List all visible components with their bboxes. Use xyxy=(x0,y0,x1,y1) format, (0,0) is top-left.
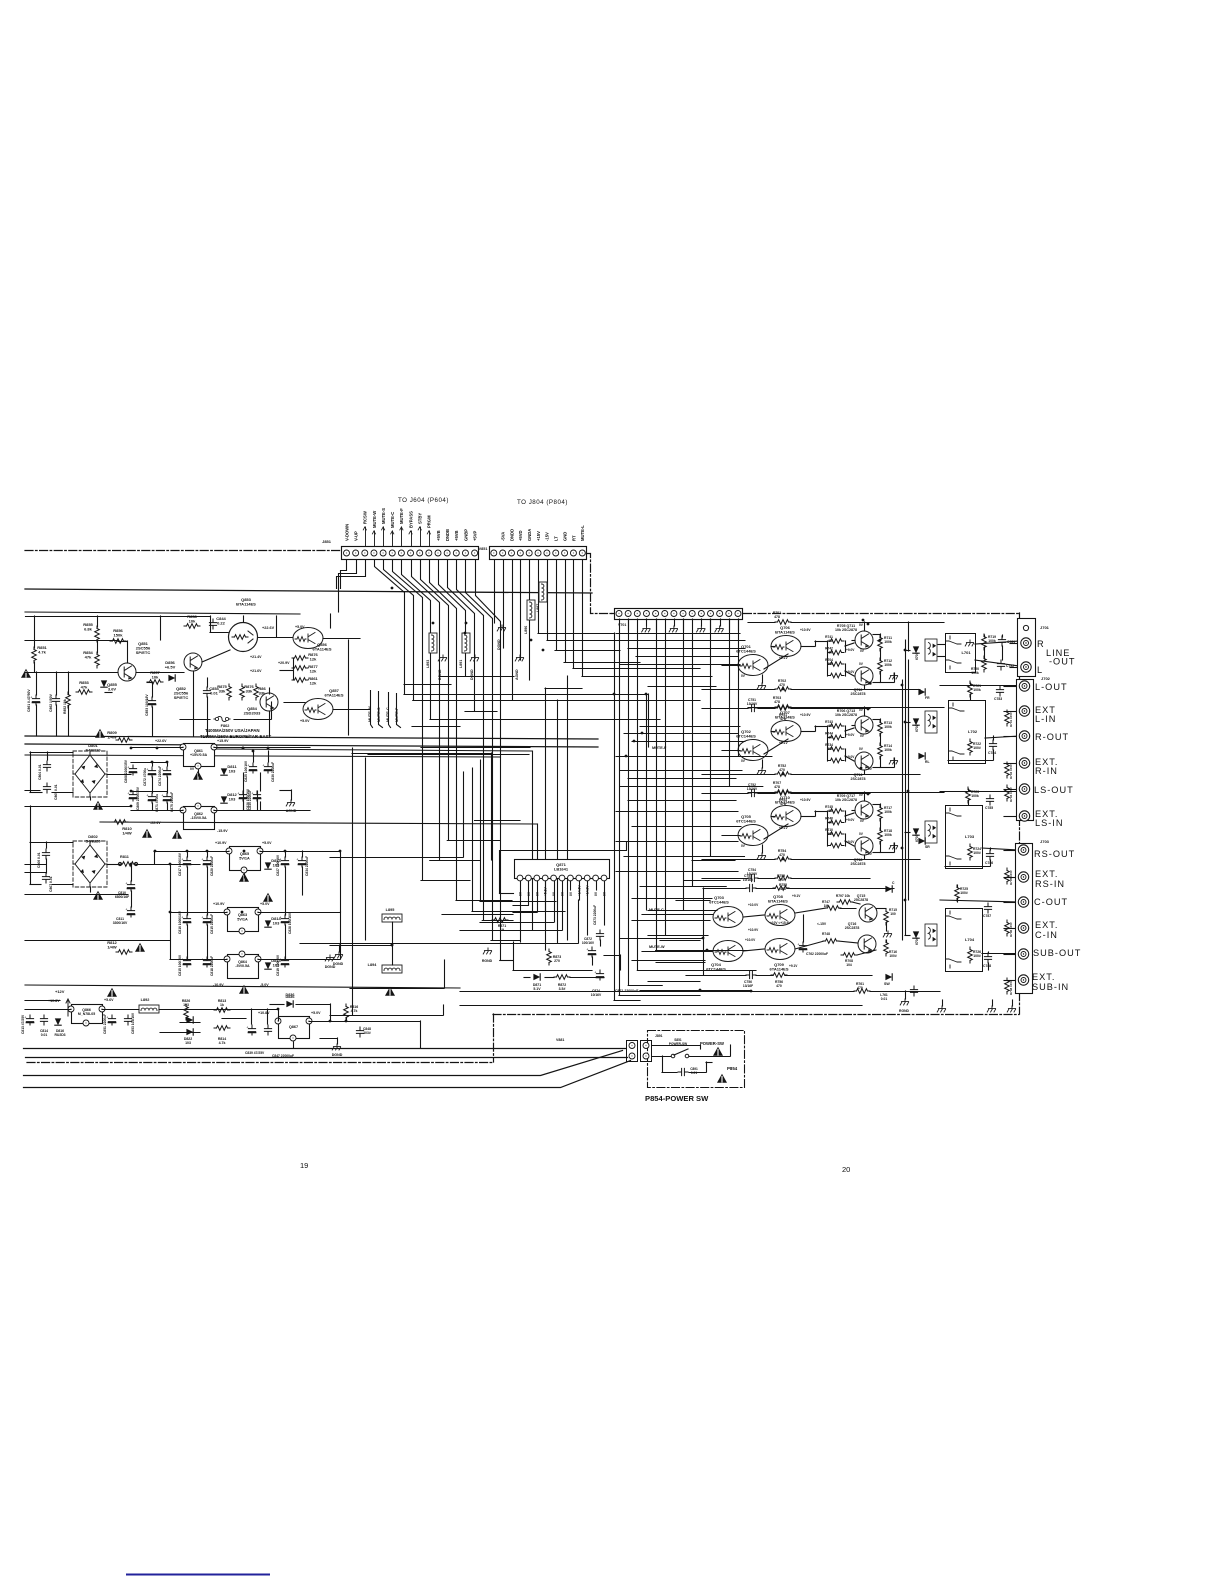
resistor R875 xyxy=(227,684,232,700)
svg-text:-5VA: -5VA xyxy=(500,532,505,541)
svg-text:103: 103 xyxy=(229,769,236,774)
wire V851 pin drops xyxy=(495,560,583,700)
svg-text:R732 100#: R732 100# xyxy=(1009,764,1013,779)
wire row Q702 xyxy=(722,707,909,774)
resistor R734 100k xyxy=(1005,785,1010,801)
svg-text:LT: LT xyxy=(554,536,559,541)
diode D815 xyxy=(265,962,271,969)
svg-text:MUTE-L: MUTE-L xyxy=(580,525,585,541)
diode D816 xyxy=(55,1018,61,1025)
capacitor C820 xyxy=(201,857,210,867)
svg-text:100#: 100# xyxy=(960,891,968,895)
capacitor C782 xyxy=(997,660,1004,670)
svg-text:+5VB: +5VB xyxy=(436,530,441,541)
capacitor C788 xyxy=(984,953,991,963)
svg-text:2SC2878: 2SC2878 xyxy=(851,692,866,696)
transistor Q701 digital xyxy=(738,655,768,676)
transistor Q705 digital xyxy=(738,825,768,846)
connector V851 pin labels xyxy=(500,525,585,541)
svg-text:2SC2878: 2SC2878 xyxy=(845,926,860,930)
jack J703-5 xyxy=(1018,949,1028,959)
ground Q705 xyxy=(757,853,765,859)
svg-text:13/16V: 13/16V xyxy=(747,702,758,706)
svg-text:STBY: STBY xyxy=(418,513,423,524)
svg-text:1M: 1M xyxy=(828,651,833,655)
transistor Q704 digital xyxy=(713,941,743,962)
capacitor C806 xyxy=(42,849,49,859)
svg-text:R: R xyxy=(1037,639,1045,649)
resistor R811 xyxy=(120,862,136,867)
resistor R722 xyxy=(968,739,973,755)
svg-text:10/16V: 10/16V xyxy=(591,993,602,997)
wire top rail R703 xyxy=(748,707,775,709)
diode 6701 input xyxy=(913,646,919,653)
svg-text:Q867: Q867 xyxy=(289,1025,298,1029)
svg-text:BTA114ES: BTA114ES xyxy=(775,715,795,720)
resistor R872 xyxy=(554,975,570,980)
svg-text:M_N78L05: M_N78L05 xyxy=(78,1012,95,1016)
warning triangle q863 xyxy=(263,893,273,902)
svg-text:4.7k: 4.7k xyxy=(351,1009,358,1013)
capacitor C862 xyxy=(52,695,59,705)
resistor R707 xyxy=(775,790,791,795)
ground DGND bottom xyxy=(332,1044,340,1050)
capacitor C816 xyxy=(181,915,190,925)
resistor R736 100k xyxy=(1005,920,1010,936)
resistor R711 100k xyxy=(878,635,883,651)
wire MUTE-W xyxy=(642,951,713,953)
svg-text:RL: RL xyxy=(925,760,930,764)
svg-text:J851: J851 xyxy=(322,539,332,544)
resistor R814 xyxy=(214,1026,230,1031)
resistor R797 xyxy=(837,900,853,905)
svg-text:2SD2033: 2SD2033 xyxy=(244,711,261,716)
svg-text:BTA114ES: BTA114ES xyxy=(775,630,795,635)
resistor R712 100k xyxy=(878,658,883,674)
resistor R753 xyxy=(775,791,791,796)
transistor Q854 xyxy=(260,693,278,711)
svg-text:-15V/0.5A: -15V/0.5A xyxy=(190,816,207,820)
capacitor C835 xyxy=(251,791,260,801)
svg-text:4.7k: 4.7k xyxy=(38,650,47,655)
svg-text:C836 2200uF: C836 2200uF xyxy=(271,762,275,782)
svg-text:RT: RT xyxy=(571,535,576,541)
boundary dash-dot amp right xyxy=(1019,613,1021,1014)
capacitor C813 xyxy=(24,1015,33,1025)
resistor R877 12k xyxy=(292,666,308,671)
wire cap rail C751 xyxy=(702,708,748,710)
resistor R716 xyxy=(884,940,889,956)
svg-text:100k: 100k xyxy=(971,671,979,675)
svg-text:L701: L701 xyxy=(961,650,971,655)
switch S851 xyxy=(652,1045,731,1058)
svg-text:R797 10k: R797 10k xyxy=(836,894,850,898)
wire relay4 xyxy=(905,885,1019,970)
ground mid V851 xyxy=(497,625,505,631)
svg-text:1/4W: 1/4W xyxy=(122,831,132,836)
svg-text:C818 2200uF: C818 2200uF xyxy=(210,956,214,976)
svg-text:103: 103 xyxy=(183,1003,189,1007)
capacitor C783 xyxy=(996,686,1003,696)
resistor R809 xyxy=(116,738,132,743)
capacitor C891 xyxy=(678,1068,688,1075)
diode D823 xyxy=(186,1017,193,1023)
svg-text:C873 2200uF: C873 2200uF xyxy=(593,905,597,925)
boundary dash-dot V851 to amp xyxy=(587,554,613,614)
diode D812 xyxy=(221,796,227,803)
warning triangle q861 xyxy=(193,771,203,780)
svg-text:C-IN: C-IN xyxy=(1035,930,1058,940)
svg-text:104: 104 xyxy=(846,963,852,967)
wire cap rail C752 xyxy=(702,793,748,795)
svg-text:DGND: DGND xyxy=(470,669,474,680)
diode D811 xyxy=(221,768,227,775)
svg-text:J701: J701 xyxy=(1040,625,1050,630)
boundary dash-dot amp bottom xyxy=(493,1014,1019,1016)
diode 6704 input xyxy=(913,931,919,938)
svg-text:EXT.: EXT. xyxy=(1032,972,1055,982)
wire reg15 rails xyxy=(25,748,310,811)
capacitor C828 xyxy=(279,915,288,925)
connector V851 xyxy=(490,547,587,560)
svg-text:+9.0V: +9.0V xyxy=(846,733,855,737)
wire V701 pin drops short xyxy=(629,619,739,630)
wire center block xyxy=(620,888,887,975)
inductor L893 xyxy=(429,633,437,653)
svg-text:DGND: DGND xyxy=(325,965,336,969)
svg-text:4.7k: 4.7k xyxy=(219,1041,226,1045)
jack J702-5 xyxy=(1019,784,1029,794)
svg-text:10k: 10k xyxy=(189,619,196,624)
svg-text:PRGM: PRGM xyxy=(427,515,432,528)
svg-text:R736 100#: R736 100# xyxy=(1009,922,1013,937)
svg-text:103: 103 xyxy=(273,921,280,926)
capacitor C848 xyxy=(356,1027,363,1037)
wire mid verticals to ic xyxy=(100,588,590,1016)
svg-text:100#: 100# xyxy=(973,954,981,958)
svg-text:C816 1000/16V: C816 1000/16V xyxy=(178,910,182,934)
resistor R738 100k xyxy=(1005,978,1010,994)
svg-text:D836: D836 xyxy=(285,995,294,999)
diode D814 xyxy=(265,920,271,927)
transistor Q710 digital xyxy=(771,806,801,827)
svg-text:C786: C786 xyxy=(985,861,993,865)
ground DGND mid xyxy=(438,655,446,661)
svg-text:SUB-OUT: SUB-OUT xyxy=(1033,948,1081,958)
wire row Q705 xyxy=(722,792,909,859)
svg-text:C825 100/16V: C825 100/16V xyxy=(244,760,248,782)
capacitor C872 xyxy=(146,767,155,777)
resistor R854 xyxy=(95,652,100,668)
connector J891 b xyxy=(641,1041,652,1062)
svg-text:MUTE-F: MUTE-F xyxy=(399,508,404,524)
transistor Q852 xyxy=(184,653,202,671)
resistor ladder R743 R744 R734 xyxy=(825,720,855,763)
wire bottom rail pair 1 xyxy=(24,1048,626,1050)
wire reg5 rails xyxy=(25,851,341,960)
svg-text:6TC144ES: 6TC144ES xyxy=(736,649,756,654)
warning triangle q865 xyxy=(239,873,249,882)
svg-text:C847 22000uF: C847 22000uF xyxy=(272,1054,294,1058)
svg-text:478: 478 xyxy=(774,785,780,789)
wire IC loop outer xyxy=(500,843,627,894)
resistor R855 xyxy=(95,626,100,642)
warning triangle q864 xyxy=(239,985,249,994)
wire bottom long 2 xyxy=(24,1061,631,1088)
inductor L896 xyxy=(527,600,535,620)
svg-text:13/16F: 13/16F xyxy=(743,984,753,988)
diode D856 xyxy=(168,675,175,681)
capacitor C819 xyxy=(279,957,288,967)
svg-text:1/4W: 1/4W xyxy=(107,945,117,950)
svg-text:+10.9V: +10.9V xyxy=(215,841,227,845)
capacitor C875 xyxy=(161,793,170,803)
svg-text:C839 47/25V: C839 47/25V xyxy=(245,1051,265,1055)
capacitor C781 xyxy=(998,636,1005,646)
diode D836 xyxy=(286,1001,293,1007)
svg-text:R811: R811 xyxy=(120,855,129,859)
ground Q701 xyxy=(757,683,765,689)
wire ic bottom xyxy=(513,940,621,978)
transistor Q707 digital xyxy=(771,721,801,742)
wire top rail R707 xyxy=(748,792,775,794)
svg-text:470: 470 xyxy=(779,853,785,857)
svg-text:C813 47/25V: C813 47/25V xyxy=(21,1014,25,1034)
wire ps block fills xyxy=(35,616,272,736)
capacitor C825 xyxy=(247,763,256,773)
svg-text:+5.0V: +5.0V xyxy=(295,625,305,629)
svg-text:1M: 1M xyxy=(828,724,833,728)
capacitor C762 xyxy=(797,942,806,952)
capacitor C754 xyxy=(748,874,758,881)
capacitor C8x2 xyxy=(264,1025,271,1035)
svg-text:103: 103 xyxy=(185,1041,191,1045)
wire rail mid pair A xyxy=(25,736,598,739)
ground L701 xyxy=(965,640,973,646)
svg-text:C875 2900uF: C875 2900uF xyxy=(170,792,174,812)
ground AGND mid xyxy=(515,655,523,661)
resistor ladder R741 R742 R704 xyxy=(825,635,855,678)
svg-text:5V/1A: 5V/1A xyxy=(239,856,250,860)
capacitor C787 xyxy=(984,903,991,913)
resistor ladder R745 R746 R710 xyxy=(825,805,855,848)
capacitor C752 xyxy=(748,789,758,796)
wire relay1 xyxy=(905,635,1019,666)
svg-text:Q863: Q863 xyxy=(238,913,247,917)
jack J702-3 xyxy=(1019,731,1029,741)
ground q715 xyxy=(883,931,891,937)
wire MUTE-C xyxy=(642,914,713,916)
svg-text:L703: L703 xyxy=(965,834,975,839)
wire bundle J851 verticals xyxy=(375,561,501,961)
svg-text:BTA114ES: BTA114ES xyxy=(775,800,795,805)
boundary dash-dot bottom xyxy=(27,1062,493,1064)
svg-text:6TC144ES: 6TC144ES xyxy=(736,734,756,739)
svg-text:12k: 12k xyxy=(310,669,317,674)
svg-text:C853 103/16V: C853 103/16V xyxy=(131,1012,135,1034)
jack J703-1 xyxy=(1018,845,1028,855)
svg-text:+5VB: +5VB xyxy=(454,530,459,541)
wire amp grounds bottom xyxy=(937,1000,1015,1012)
resistor R755 xyxy=(775,876,791,881)
wire V701 grounds xyxy=(642,619,724,632)
wire jack stubs xyxy=(1004,644,1017,981)
diode RL xyxy=(918,753,925,759)
transistor Q702 digital xyxy=(738,740,768,761)
capacitor C785 xyxy=(986,795,993,805)
svg-text:18k: 18k xyxy=(827,747,833,751)
svg-text:+5.6V: +5.6V xyxy=(104,998,114,1002)
regulator Q864 xyxy=(228,955,259,979)
svg-text:100k: 100k xyxy=(973,688,981,692)
transistor Q851 xyxy=(118,663,136,681)
capacitor C853b xyxy=(124,1015,131,1025)
relay L701 xyxy=(946,634,976,673)
regulator Q866 xyxy=(72,1005,103,1024)
ground RGND amp xyxy=(900,999,908,1005)
svg-text:C806 0.01: C806 0.01 xyxy=(37,852,41,868)
svg-text:C862 1/50V: C862 1/50V xyxy=(49,693,53,712)
svg-text:C785: C785 xyxy=(985,806,993,810)
svg-text:L891: L891 xyxy=(459,660,463,668)
svg-text:C809 2200/35V: C809 2200/35V xyxy=(136,786,140,810)
warning triangle q866 xyxy=(107,988,117,997)
jack J702-2 xyxy=(1019,706,1029,716)
wire +12V arrow xyxy=(66,999,70,1016)
capacitor C786 xyxy=(986,850,993,860)
svg-text:1/4W: 1/4W xyxy=(107,735,117,740)
svg-text:+5.0V: +5.0V xyxy=(262,841,272,845)
jack J703-4 xyxy=(1018,923,1028,933)
transistor Q717 xyxy=(855,801,873,819)
svg-text:6TC144ES: 6TC144ES xyxy=(736,819,756,824)
wire cap rail C754 xyxy=(702,878,748,880)
relay L702 xyxy=(949,701,986,764)
svg-text:33k: 33k xyxy=(246,689,253,694)
connector J701 pin top xyxy=(1023,625,1028,630)
junction dots xyxy=(130,587,910,1023)
svg-text:2SC2878: 2SC2878 xyxy=(851,777,866,781)
svg-text:V-UP: V-UP xyxy=(353,531,358,541)
capacitor C784 xyxy=(989,740,996,750)
svg-text:L893: L893 xyxy=(426,660,430,668)
svg-text:P854: P854 xyxy=(727,1066,738,1071)
svg-text:C815 100/16V: C815 100/16V xyxy=(178,954,182,976)
warning triangle r809 xyxy=(95,729,105,738)
svg-text:MUTE-C: MUTE-C xyxy=(390,512,395,528)
svg-text:19: 19 xyxy=(500,928,504,932)
svg-text:RGND: RGND xyxy=(899,1009,910,1013)
wire mute drops xyxy=(371,691,401,728)
resistor R718 100k xyxy=(878,828,883,844)
jack J703-6 xyxy=(1018,975,1028,985)
svg-text:J702: J702 xyxy=(1041,676,1051,681)
svg-text:1M: 1M xyxy=(828,821,833,825)
diode 6703 input xyxy=(913,828,919,835)
svg-text:100k: 100k xyxy=(884,833,892,837)
resistor R724 xyxy=(968,844,973,860)
zener Q855 xyxy=(101,680,107,687)
svg-text:C819 100/16V: C819 100/16V xyxy=(276,954,280,976)
capacitor C805 xyxy=(43,783,50,793)
svg-text:RGND: RGND xyxy=(482,959,493,963)
svg-text:100k: 100k xyxy=(884,663,892,667)
svg-text:10k: 10k xyxy=(152,675,159,680)
svg-text:C874 2200uF: C874 2200uF xyxy=(158,766,162,786)
svg-text:25C2878: 25C2878 xyxy=(854,898,868,902)
svg-text:1M: 1M xyxy=(828,639,833,643)
svg-text:+22.6V: +22.6V xyxy=(155,739,167,743)
svg-text:DGND: DGND xyxy=(438,669,442,680)
capacitor C809 xyxy=(127,791,136,801)
wire ps block right xyxy=(280,614,370,710)
svg-text:150k: 150k xyxy=(114,633,124,638)
svg-text:-10.9V: -10.9V xyxy=(213,983,224,987)
svg-text:100k: 100k xyxy=(884,640,892,644)
wire ps cap rails xyxy=(25,763,303,958)
svg-text:100k: 100k xyxy=(884,810,892,814)
svg-text:L: L xyxy=(1037,665,1043,675)
svg-text:RU2D3: RU2D3 xyxy=(54,1033,65,1037)
wire V851 right turns to amp xyxy=(538,634,700,677)
capacitor C827 xyxy=(279,857,288,867)
svg-text:270: 270 xyxy=(554,959,560,963)
warning triangle sw2 xyxy=(717,1074,727,1083)
label 0V marks Q713 xyxy=(859,708,873,771)
boundary dash-dot left step xyxy=(493,1014,495,1062)
svg-text:L704: L704 xyxy=(965,937,975,942)
svg-text:J703: J703 xyxy=(1040,839,1050,844)
inductor L897 xyxy=(539,582,547,602)
resistor R86x xyxy=(254,684,259,700)
connector J701 box xyxy=(1018,619,1036,677)
svg-text:TO J604 (P604): TO J604 (P604) xyxy=(398,497,449,504)
wire relay2 xyxy=(905,683,1019,761)
resistor R732 100k xyxy=(1005,762,1010,778)
svg-text:+5.0V: +5.0V xyxy=(260,902,270,906)
svg-text:+10.9V: +10.9V xyxy=(800,798,811,802)
svg-text:SP/ETC: SP/ETC xyxy=(136,650,151,655)
svg-text:MUTE-W: MUTE-W xyxy=(372,511,377,528)
regulator Q867 xyxy=(279,1017,310,1039)
capacitor C861 xyxy=(30,695,39,705)
svg-text:-5.0V: -5.0V xyxy=(260,983,269,987)
transistor Q853 power xyxy=(229,623,258,652)
transistor Q857 digital xyxy=(303,699,333,720)
svg-text:+9.0V: +9.0V xyxy=(846,755,855,759)
svg-text:3.5#: 3.5# xyxy=(559,987,566,991)
diode D813 xyxy=(265,862,271,869)
bridge rectifier D802 xyxy=(73,841,107,887)
capacitor C851b xyxy=(106,1015,115,1025)
svg-text:DNDD: DNDD xyxy=(509,529,514,541)
svg-text:+15V: +15V xyxy=(536,531,541,541)
ground DGND mid2 xyxy=(470,655,478,661)
svg-text:-5V/0.5A: -5V/0.5A xyxy=(235,964,250,968)
svg-text:SP/ETC: SP/ETC xyxy=(174,695,189,700)
svg-text:C788: C788 xyxy=(983,964,991,968)
svg-text:L892: L892 xyxy=(141,998,150,1002)
ground RGND ic xyxy=(483,948,491,954)
wire bridge1 xyxy=(25,752,131,807)
svg-text:R734 100#: R734 100# xyxy=(1009,787,1013,802)
capacitor C844 xyxy=(209,619,216,629)
wire top rail R701 xyxy=(748,622,775,624)
label +5.0V marks xyxy=(295,625,310,723)
svg-text:C762 22000uF: C762 22000uF xyxy=(806,952,828,956)
wire ps top rail xyxy=(26,616,211,618)
resistor R720 xyxy=(982,656,987,672)
